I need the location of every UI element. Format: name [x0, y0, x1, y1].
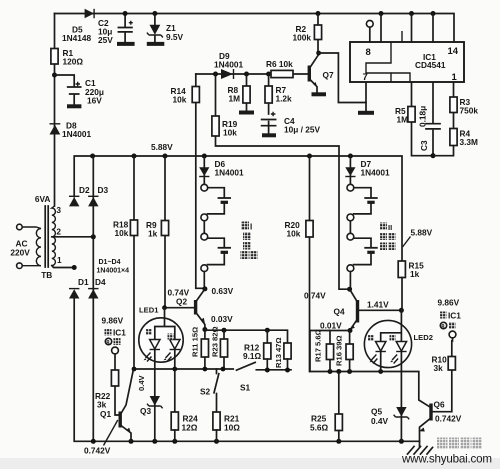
- diode D7: [345, 156, 390, 184]
- svg-text:LED1: LED1: [139, 306, 159, 315]
- resistor R22: [95, 354, 120, 415]
- node Q2 base / LED1 feed: [162, 305, 167, 310]
- zener Q5: [371, 407, 409, 427]
- svg-text:25V: 25V: [98, 35, 113, 45]
- svg-text:9.1Ω: 9.1Ω: [243, 351, 262, 361]
- node 0.03V: [202, 314, 233, 332]
- svg-text:D1~D4: D1~D4: [99, 259, 121, 266]
- resistor R21: [213, 412, 240, 441]
- resistor R2: [293, 14, 322, 53]
- transistor Q7: [309, 55, 334, 95]
- svg-text:1: 1: [452, 72, 458, 83]
- svg-text:R11 15Ω: R11 15Ω: [191, 327, 200, 357]
- svg-text:5.88V: 5.88V: [151, 142, 173, 152]
- node bottom rail junctions: [91, 439, 404, 444]
- diode D9: [214, 51, 243, 79]
- svg-text:12Ω: 12Ω: [182, 423, 198, 433]
- resistor R4: [450, 129, 478, 148]
- svg-text:www.shyubai.com: www.shyubai.com: [401, 453, 492, 466]
- wire D9 row: [196, 73, 309, 75]
- svg-text:TB: TB: [41, 270, 52, 280]
- svg-text:I: I: [250, 223, 252, 232]
- wire IC top feeds: [381, 14, 433, 43]
- svg-text:IC1: IC1: [448, 311, 461, 321]
- svg-text:16V: 16V: [87, 96, 102, 106]
- svg-text:0.63V: 0.63V: [212, 286, 234, 296]
- diode D1: [69, 277, 89, 299]
- svg-text:R13 47Ω: R13 47Ω: [274, 337, 283, 368]
- svg-text:0.18μ: 0.18μ: [418, 106, 428, 127]
- op-amp U1 IC1 CD4541 box: [350, 42, 464, 83]
- svg-text:1N4148: 1N4148: [62, 33, 91, 43]
- node R12 R13 bottom junctions: [265, 368, 290, 373]
- svg-text:R6 10k: R6 10k: [266, 59, 293, 69]
- watermark: [401, 438, 492, 466]
- node pin8 terminal: [366, 20, 402, 42]
- node right network junctions: [328, 369, 384, 374]
- svg-text:7: 7: [363, 72, 368, 83]
- svg-text:9.86V: 9.86V: [438, 298, 460, 308]
- resistor R5: [395, 83, 433, 156]
- node emitter row junctions: [222, 328, 270, 333]
- wire Q7 collector to pin7 column: [319, 53, 366, 103]
- svg-text:1k: 1k: [410, 269, 420, 279]
- diode D2: [69, 185, 90, 206]
- switch S1: [237, 362, 292, 392]
- transistor Q1: [100, 369, 134, 441]
- svg-text:0.4V: 0.4V: [371, 416, 389, 426]
- resistor R12: [243, 330, 271, 370]
- svg-text:10k: 10k: [173, 95, 187, 105]
- svg-text:1N4001: 1N4001: [361, 168, 390, 178]
- svg-text:Q1: Q1: [100, 409, 111, 419]
- resistor R19: [212, 74, 350, 289]
- diode D5: [62, 9, 94, 43]
- resistor R9: [146, 156, 195, 308]
- resistor R25: [310, 372, 342, 442]
- node Q7 collector: [316, 51, 321, 56]
- svg-text:Q5: Q5: [371, 407, 382, 417]
- svg-text:9.86V: 9.86V: [102, 316, 124, 326]
- diode D8: [50, 121, 92, 140]
- wire right network bottom row: [310, 331, 430, 408]
- wire emitter row 0.03V to R13: [205, 330, 288, 343]
- svg-text:3.3M: 3.3M: [460, 137, 479, 147]
- resistor R18: [113, 156, 138, 369]
- svg-text:8: 8: [366, 47, 371, 58]
- wire secondary tap1: [52, 266, 74, 268]
- battery holder 2 terminals and cells: [347, 184, 378, 289]
- wire bridge right column: [92, 156, 94, 441]
- ground pin7 bar: [358, 83, 374, 113]
- svg-text:C3: C3: [419, 140, 429, 151]
- resistor R3: [433, 83, 478, 156]
- resistor R23: [211, 326, 228, 369]
- capacitor C1: [52, 73, 104, 107]
- svg-text:Q3: Q3: [140, 406, 151, 416]
- svg-text:1k: 1k: [148, 229, 158, 239]
- resistor R20: [285, 156, 314, 372]
- svg-text:Q6: Q6: [434, 400, 445, 410]
- wire bottom network left: [134, 368, 233, 370]
- resistor R16: [335, 331, 354, 372]
- svg-text:S1: S1: [240, 383, 251, 393]
- node 5.88V rail junctions: [132, 154, 353, 159]
- svg-text:220V: 220V: [10, 248, 30, 258]
- svg-text:1M: 1M: [397, 115, 409, 125]
- node D9 row junctions: [213, 72, 271, 77]
- resistor R10: [432, 338, 456, 412]
- capacitor C4: [262, 112, 321, 136]
- svg-text:D2: D2: [79, 185, 90, 195]
- label charging loop 2: [380, 223, 396, 251]
- diode D3: [88, 185, 108, 206]
- svg-text:II: II: [388, 223, 392, 232]
- svg-text:D4: D4: [95, 277, 106, 287]
- svg-text:10k: 10k: [115, 228, 129, 238]
- svg-text:1M: 1M: [229, 94, 241, 104]
- svg-text:10μ / 25V: 10μ / 25V: [284, 125, 320, 135]
- node 0.74V right: [304, 287, 352, 301]
- svg-text:1.41V: 1.41V: [367, 300, 389, 310]
- label 0.742V left with leader: [84, 420, 118, 456]
- svg-text:1N4001: 1N4001: [62, 129, 91, 139]
- svg-text:3k: 3k: [97, 400, 107, 410]
- svg-text:1N4001: 1N4001: [215, 168, 244, 178]
- svg-text:0.03V: 0.03V: [211, 314, 233, 324]
- resistor R8: [228, 74, 255, 113]
- svg-text:0.742V: 0.742V: [84, 446, 111, 456]
- svg-text:D3: D3: [98, 185, 109, 195]
- svg-text:CD4541: CD4541: [415, 60, 446, 70]
- svg-text:6VA: 6VA: [35, 194, 51, 204]
- label 5.88V right: [403, 228, 433, 248]
- node 1.41V: [367, 300, 404, 313]
- svg-text:5.6Ω: 5.6Ω: [310, 423, 329, 433]
- svg-text:1: 1: [57, 255, 62, 265]
- node bottom network left junctions: [132, 367, 226, 372]
- svg-text:10k: 10k: [223, 128, 237, 138]
- svg-text:Q4: Q4: [334, 307, 345, 317]
- svg-text:Q2: Q2: [176, 297, 187, 307]
- resistor R7: [265, 74, 292, 114]
- zener Z1: [147, 14, 184, 44]
- node 0.63V: [202, 286, 233, 296]
- svg-text:0.742V: 0.742V: [435, 414, 462, 424]
- transistor Q6: [419, 400, 462, 442]
- resistor R1: [51, 48, 83, 67]
- ground main: [408, 441, 433, 454]
- svg-text:0.4V: 0.4V: [137, 374, 146, 391]
- wire secondary tap2: [52, 236, 94, 238]
- wire 0.01V row: [310, 330, 350, 332]
- node tap joins: [72, 154, 96, 271]
- transformer TB: [10, 194, 62, 280]
- svg-text:14: 14: [448, 46, 459, 57]
- LED1 assembly: [139, 306, 183, 442]
- resistor R24: [171, 369, 198, 441]
- capacitor C2: [98, 14, 135, 46]
- svg-text:3: 3: [56, 205, 61, 215]
- label D1~D4 1N4001x4: [97, 259, 130, 275]
- diode D6: [199, 156, 244, 184]
- svg-text:3k: 3k: [434, 363, 444, 373]
- transistor Q2: [168, 288, 205, 330]
- svg-text:10Ω: 10Ω: [224, 423, 240, 433]
- svg-text:10k: 10k: [287, 229, 301, 239]
- node 0.01V: [320, 321, 353, 334]
- capacitor C3: [418, 83, 441, 158]
- resistor R11: [191, 327, 209, 369]
- resistor R13: [274, 337, 291, 370]
- svg-text:120Ω: 120Ω: [63, 57, 84, 67]
- svg-text:0.74V: 0.74V: [304, 291, 326, 301]
- terminal 9.86V to IC1 pin8 right: [438, 298, 462, 338]
- svg-text:R23 82Ω: R23 82Ω: [211, 326, 220, 357]
- node top rail junctions: [123, 11, 436, 16]
- svg-text:1N4001×4: 1N4001×4: [97, 268, 130, 275]
- resistor R14: [171, 74, 205, 288]
- svg-text:R17 5.6Ω: R17 5.6Ω: [314, 329, 323, 362]
- transistor Q4: [334, 289, 358, 330]
- svg-text:R16 39Ω: R16 39Ω: [335, 335, 344, 366]
- wire bottom rail: [74, 298, 419, 441]
- svg-text:9.5V: 9.5V: [166, 32, 184, 42]
- wire Q4 base to 1.41V node: [359, 309, 402, 311]
- svg-text:Q7: Q7: [323, 70, 334, 80]
- label charging loop 1: [241, 222, 258, 260]
- wire 5.88V rail: [74, 156, 402, 261]
- resistor R17: [314, 329, 334, 371]
- svg-text:100k: 100k: [293, 33, 312, 43]
- svg-text:S2: S2: [200, 387, 211, 397]
- battery holder 1 terminals and cells: [201, 184, 231, 289]
- svg-text:LED2: LED2: [414, 333, 433, 342]
- switch S2: [200, 369, 219, 412]
- svg-text:IC1: IC1: [113, 328, 126, 338]
- svg-text:1N4001: 1N4001: [214, 60, 243, 70]
- diode D4: [88, 277, 106, 299]
- LED2 assembly: [364, 310, 433, 441]
- svg-text:750k: 750k: [460, 106, 479, 116]
- svg-text:0.01V: 0.01V: [320, 321, 342, 331]
- resistor R6: [266, 59, 293, 78]
- svg-text:2: 2: [56, 227, 61, 237]
- svg-text:5.88V: 5.88V: [411, 228, 433, 238]
- svg-text:1.2k: 1.2k: [276, 94, 293, 104]
- resistor R15: [398, 261, 424, 311]
- svg-text:D1: D1: [78, 277, 89, 287]
- wire left rail: [54, 14, 56, 207]
- terminal 9.86V to IC1 pin8 left: [102, 316, 127, 354]
- wire top rail: [55, 14, 455, 43]
- zener Q3: [137, 374, 163, 416]
